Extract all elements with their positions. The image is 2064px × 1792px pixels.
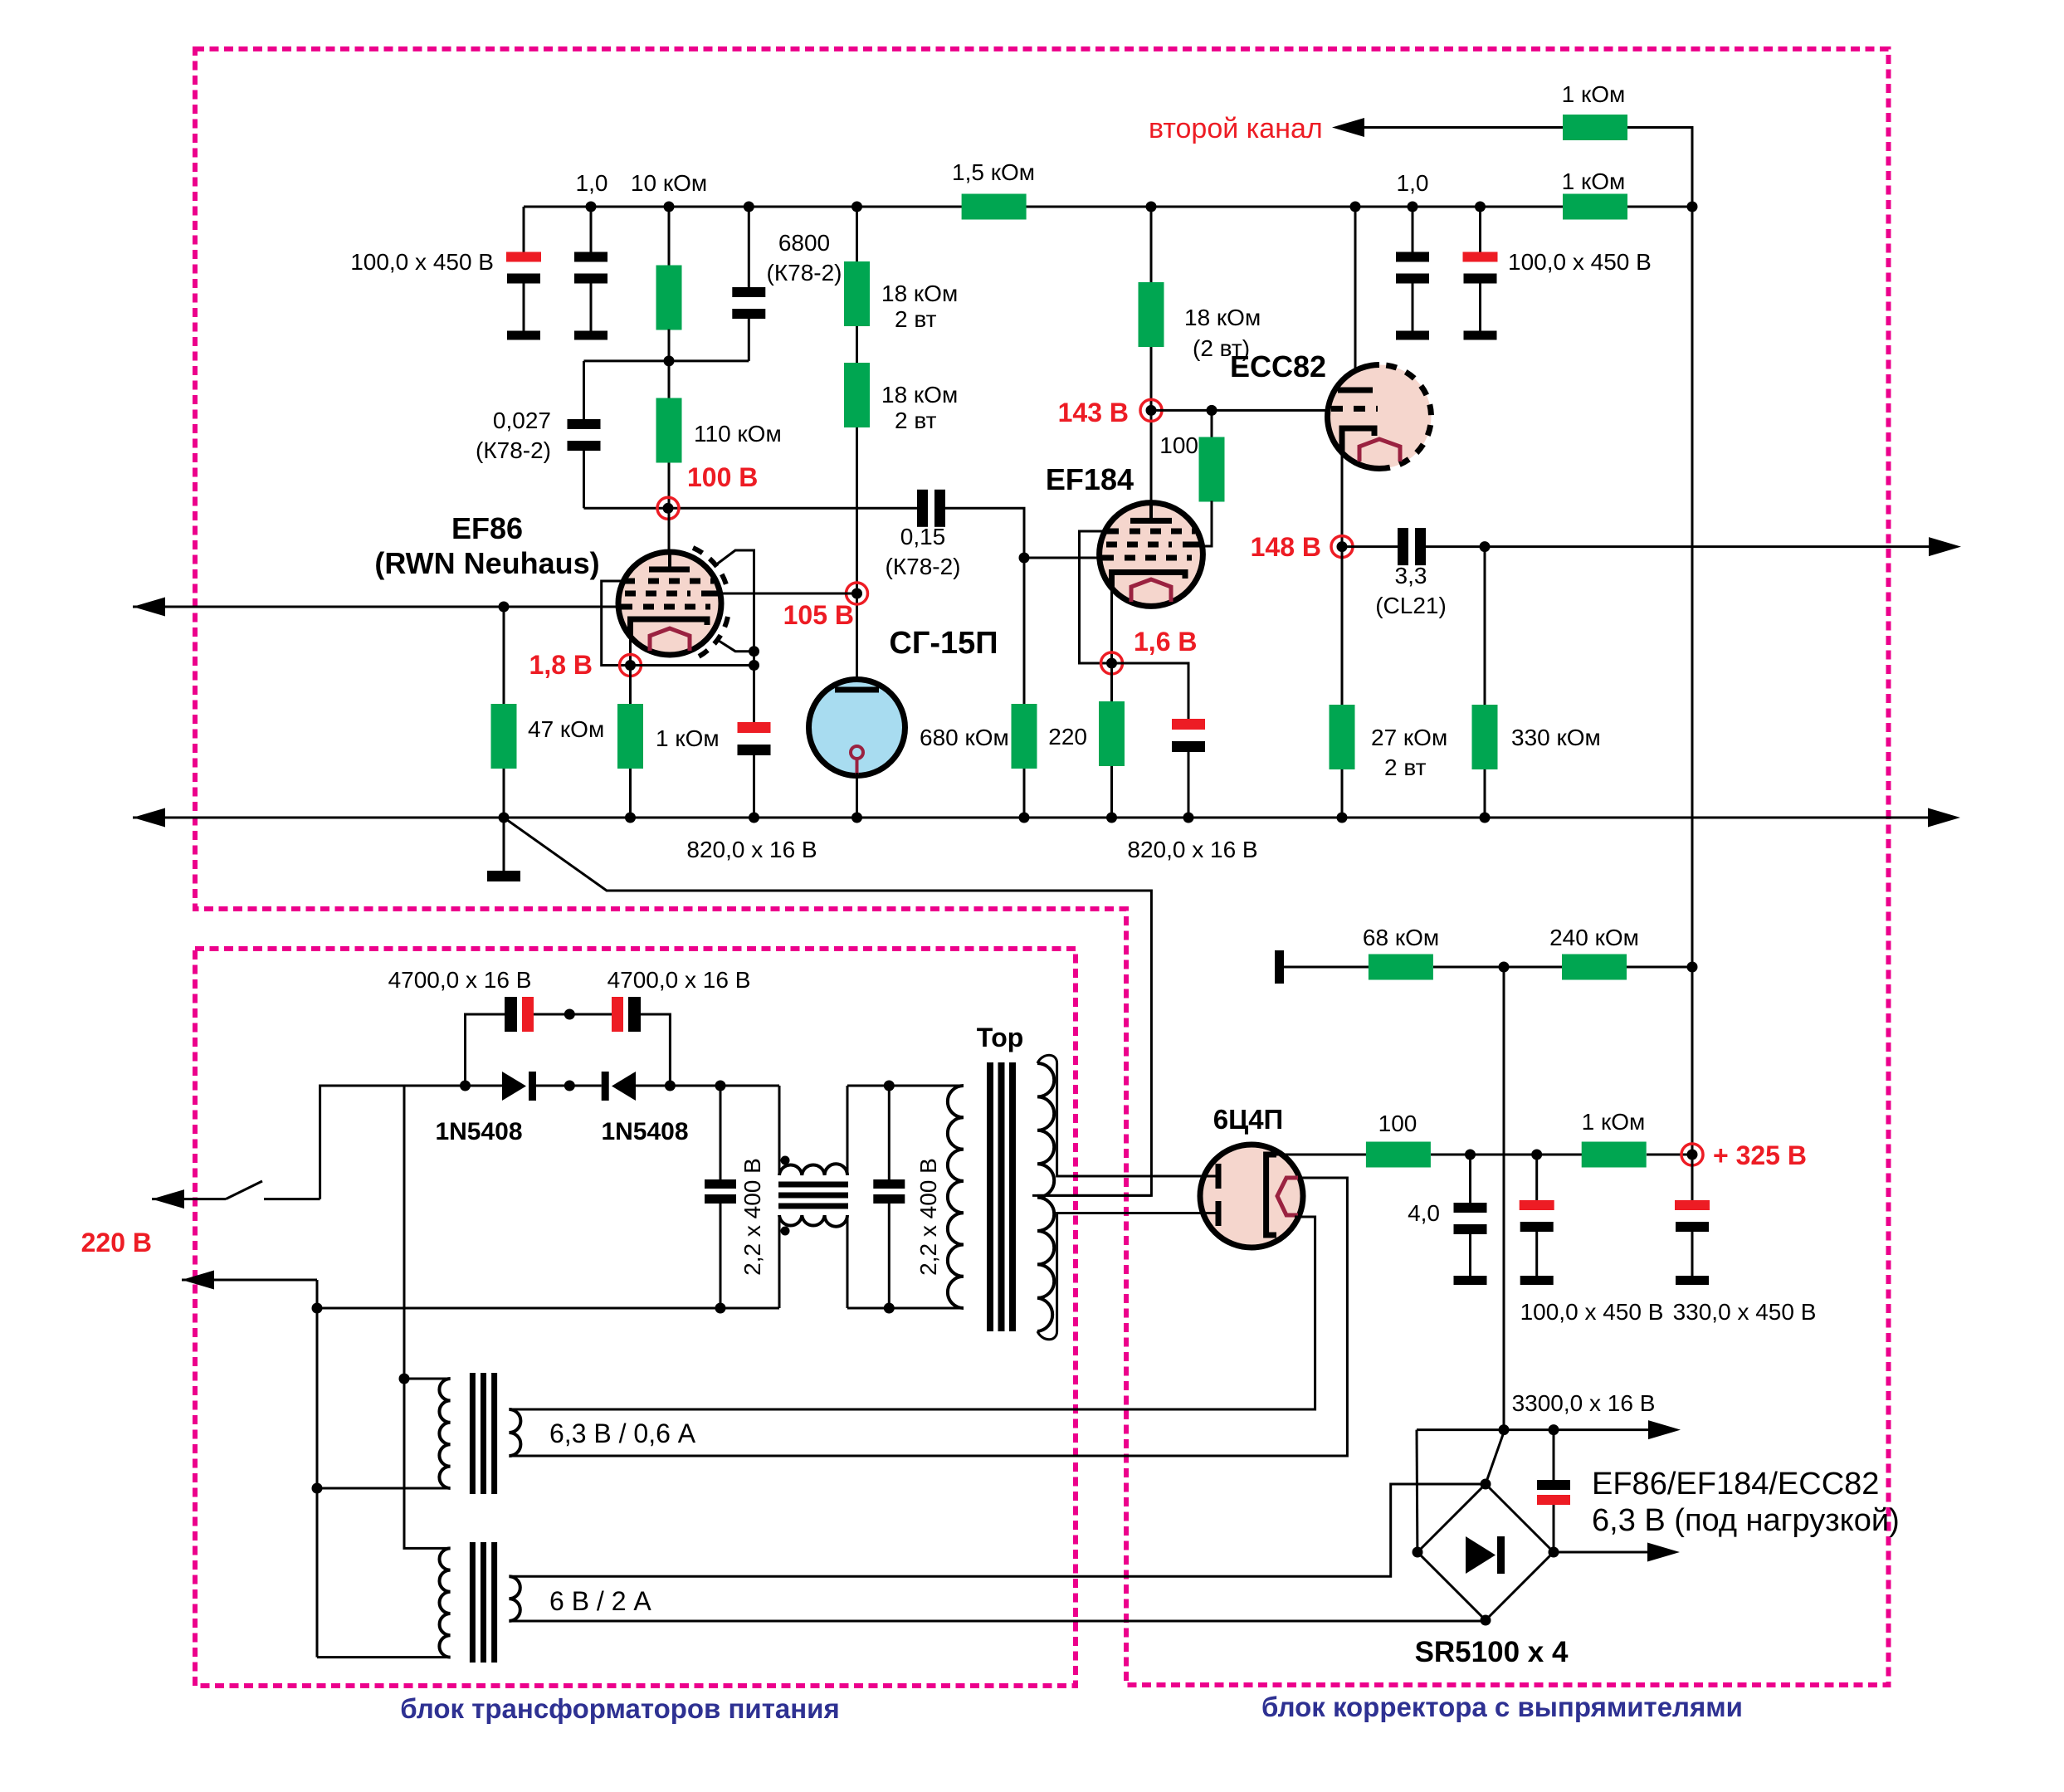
wire: bridge output to lower arrow [1554, 1551, 1648, 1554]
wire: EF86 anode pin [668, 508, 671, 554]
svg-text:220 В: 220 В [81, 1228, 152, 1257]
wire: output line with arrow [1426, 545, 1929, 548]
svg-text:1,0: 1,0 [576, 170, 608, 196]
wire: EF86 screen grid to 105V node [720, 593, 857, 595]
svg-text:330,0 x 450 В: 330,0 x 450 В [1673, 1299, 1817, 1325]
svg-text:18 кОм: 18 кОм [1184, 305, 1261, 330]
svg-text:0,15: 0,15 [900, 524, 946, 549]
wire: ECC82 anode feed [1350, 202, 1361, 212]
wire: switch riser to DC-trap [320, 1086, 502, 1199]
svg-text:2,2 x 400 В: 2,2 x 400 В [739, 1158, 765, 1276]
wire: 6C4P cathode output [1268, 1154, 1366, 1156]
EF86 cathode [631, 619, 708, 636]
svg-text:(CL21): (CL21) [1375, 593, 1447, 618]
wire: 6,3V/0,6A heater line lower [509, 1178, 1347, 1456]
svg-text:второй канал: второй канал [1149, 113, 1323, 144]
svg-text:100 В: 100 В [687, 462, 758, 492]
ECC82 heater [1359, 439, 1400, 461]
svg-text:100,0 x 450 В: 100,0 x 450 В [1520, 1299, 1664, 1325]
resistor 1,5 kOhm (rail decoupling) [962, 194, 1027, 220]
filament transformer 1 core [472, 1373, 494, 1494]
wire: 143V node to ECC82 grid [1151, 409, 1329, 412]
svg-text:EF86: EF86 [451, 511, 523, 545]
EF86 grid g3 row [624, 579, 714, 584]
resistor 27 kOhm 2W [1341, 547, 1344, 706]
EF86 grid3 tie to cathode [602, 581, 631, 666]
6C4P heater [1277, 1178, 1298, 1215]
filament transformer 1 secondary 6,3V [509, 1409, 520, 1456]
6C4P plate 1 [1203, 1175, 1217, 1178]
node: 1,6 V test point [1106, 658, 1117, 669]
svg-text:105 В: 105 В [783, 600, 854, 630]
wire: Tor secondary center tap [1037, 1194, 1151, 1197]
svg-text:18 кОм: 18 кОм [881, 281, 958, 306]
6C4P plate 2 [1203, 1212, 1217, 1214]
wire: divider tap down to heater reference [1503, 967, 1505, 1430]
wire: neutral drop [316, 1280, 319, 1658]
capacitor EF184 cathode bypass electrolytic [1112, 663, 1189, 720]
capacitor 100,0 x 450V electrolytic [1535, 1155, 1538, 1200]
svg-text:1 кОм: 1 кОм [1562, 81, 1626, 107]
wire: bridge minus riser [1416, 1430, 1419, 1552]
switch (mains) [226, 1181, 262, 1199]
diode 1N5408 (right, mirrored) [602, 1072, 609, 1101]
wire: EF184 grid entry [1024, 557, 1100, 559]
wire: screen supply column to SG-15P [856, 427, 858, 687]
svg-text:148 В: 148 В [1251, 532, 1321, 562]
resistor 1 kOhm (second channel) [1563, 115, 1627, 140]
svg-text:4700,0 x 16 В: 4700,0 x 16 В [388, 967, 532, 993]
arrow: to second channel [1332, 118, 1364, 137]
resistor 18 kOhm 2W (screen chain upper) [851, 202, 862, 212]
wire: PSU neutral rail [317, 1307, 779, 1310]
svg-text:ECC82: ECC82 [1230, 349, 1326, 383]
capacitor 6800 (K78-2) [744, 202, 754, 212]
svg-text:47 кОм: 47 кОм [528, 716, 604, 742]
EF184 anode [1149, 503, 1153, 520]
capacitor 100,0x450V (top right electrolytic) [1475, 202, 1486, 212]
EF86 cathode pin to 1,8V node [629, 635, 632, 666]
common-mode choke core [778, 1184, 848, 1206]
wire: DC-trap to choke [636, 1085, 779, 1087]
svg-text:100: 100 [1159, 432, 1198, 458]
ECC82 cathode [1342, 428, 1374, 452]
svg-text:2,2 x 400 В: 2,2 x 400 В [915, 1158, 941, 1276]
capacitor 330,0 x 450V electrolytic [1691, 1155, 1694, 1200]
capacitor 3,3 (CL21) output coupling [1342, 545, 1398, 548]
svg-text:4,0: 4,0 [1408, 1200, 1440, 1226]
ECC82 cathode pin to 148V node [1341, 451, 1344, 547]
resistor 680 kOhm (grid leak) [1012, 704, 1037, 769]
ECC82 anode [1338, 388, 1373, 393]
capacitor 1,0 (top right film) [1408, 202, 1418, 212]
resistor 100 (EF184 screen stopper) [1211, 410, 1213, 437]
wire: choke to Tor primary top [847, 1085, 964, 1087]
wire: diode junction [536, 1085, 602, 1087]
ECC82 grid row [1331, 406, 1378, 412]
wire: second channel feed [1362, 128, 1692, 208]
svg-text:3,3: 3,3 [1395, 563, 1427, 588]
svg-text:Тор: Тор [977, 1023, 1024, 1052]
transformer Tor secondary winding [1037, 1063, 1054, 1331]
tube ECC82 (half, dashed right) [1328, 365, 1380, 469]
node: 105 V test point [851, 588, 862, 599]
resistor 110 kOhm [668, 361, 671, 398]
common-mode choke upper winding [778, 1086, 781, 1175]
svg-text:68 кОм: 68 кОм [1363, 925, 1439, 950]
svg-text:330 кОм: 330 кОм [1511, 725, 1601, 750]
svg-text:(К78-2): (К78-2) [476, 437, 551, 463]
capacitor 0,027 (K78-2) [583, 361, 585, 420]
EF184 grid g3 row [1105, 529, 1195, 535]
frame: power transformer block [195, 949, 1076, 1686]
bridge diode symbol [1466, 1536, 1496, 1574]
transformer Tor primary winding [948, 1086, 964, 1308]
svg-text:1N5408: 1N5408 [435, 1118, 522, 1145]
svg-text:2 вт: 2 вт [895, 306, 937, 332]
wire: B+ vertical column [1691, 207, 1694, 1155]
svg-text:2 вт: 2 вт [1384, 754, 1427, 780]
svg-text:1 кОм: 1 кОм [1582, 1109, 1646, 1135]
svg-text:240 кОм: 240 кОм [1549, 925, 1639, 950]
EF86 grid g1 row [619, 604, 710, 610]
tube EF86 [618, 552, 721, 655]
node: +325 V test point [1687, 1150, 1698, 1160]
svg-text:SR5100 x 4: SR5100 x 4 [1415, 1636, 1569, 1668]
capacitor 3300,0 x 16V electrolytic [1553, 1430, 1555, 1480]
wire: RIAA junction row [584, 359, 749, 362]
wire: input rail (left arrow) [133, 606, 619, 608]
svg-text:6,3 В / 0,6 А: 6,3 В / 0,6 А [549, 1418, 696, 1448]
resistor 1 kOhm (rail) [1563, 194, 1627, 220]
svg-text:680 кОм: 680 кОм [920, 725, 1009, 750]
svg-text:EF184: EF184 [1046, 462, 1134, 496]
EF184 cathode pin [1110, 587, 1113, 663]
wire: SG-15P to ground rail [856, 773, 858, 818]
transformer Tor core [990, 1062, 1012, 1331]
bridge rectifier SR5100 x 4 [1417, 1484, 1554, 1620]
node: 143 V test point [1146, 405, 1157, 416]
resistor 47 kOhm (input load) [503, 607, 505, 705]
svg-text:СГ-15П: СГ-15П [889, 626, 998, 661]
filament transformer 2 primary [404, 1379, 451, 1548]
svg-text:220: 220 [1048, 724, 1087, 750]
svg-text:+ 325 В: + 325 В [1713, 1140, 1807, 1170]
capacitor 2,2 x 400V (right) [888, 1086, 890, 1179]
svg-text:(К78-2): (К78-2) [886, 554, 961, 579]
capacitor 4,0 film [1469, 1155, 1471, 1203]
svg-text:6Ц4П: 6Ц4П [1213, 1104, 1284, 1135]
svg-text:1,0: 1,0 [1397, 170, 1429, 196]
EF184 grid g1 row [1100, 555, 1192, 561]
svg-text:1 кОм: 1 кОм [656, 725, 720, 751]
svg-text:0,027: 0,027 [493, 408, 551, 433]
wire: coupling cap to EF184 grid [945, 508, 1024, 704]
wire: 68k/240k divider line [1275, 950, 1284, 984]
tube EF184 [1100, 503, 1203, 607]
filament transformer 2 core [472, 1542, 494, 1663]
node: 148 V test point [1337, 541, 1348, 552]
filament transformer 2 secondary 6V [509, 1576, 520, 1621]
capacitor 4700,0 x16V (right) [569, 1013, 612, 1016]
wire: mains live with arrow [152, 1198, 226, 1200]
capacitor 4700,0 x16V (left) [460, 1081, 471, 1091]
resistor 18 kOhm 2W (screen chain lower) [856, 326, 858, 364]
resistor 100 (rectifier output) [1366, 1142, 1431, 1168]
svg-text:100,0 x 450 В: 100,0 x 450 В [1508, 249, 1652, 275]
svg-text:27 кОм: 27 кОм [1371, 725, 1447, 750]
wire: common ground rail [133, 817, 1929, 819]
EF86 shield dashed arcs [693, 548, 728, 591]
wire: anode node 100V [584, 507, 918, 510]
svg-text:блок корректора с выпрямителям: блок корректора с выпрямителями [1261, 1692, 1743, 1722]
svg-text:(К78-2): (К78-2) [767, 260, 842, 286]
svg-text:EF86/EF184/ECC82: EF86/EF184/ECC82 [1592, 1467, 1879, 1501]
wire: Tor secondary top to 6C4P plate 1 [1037, 1055, 1203, 1176]
ground rail junction dots [499, 813, 510, 823]
wire: 6V/2A line lower to bridge [509, 1620, 1486, 1623]
svg-text:820,0 x 16 В: 820,0 x 16 В [686, 837, 817, 862]
tube SG-15P [809, 680, 905, 776]
svg-text:1N5408: 1N5408 [601, 1118, 688, 1145]
node: 100 V test point [657, 497, 679, 519]
node: 1,8 V test point [625, 660, 636, 671]
resistor 18 kOhm (2W) EF184 anode [1146, 202, 1157, 212]
svg-text:10 кОм: 10 кОм [631, 170, 707, 196]
wire: 6V/2A line upper to bridge [509, 1484, 1486, 1576]
svg-text:1,5 кОм: 1,5 кОм [952, 159, 1035, 185]
frame: corrector block (L-shape) [195, 49, 1889, 1685]
svg-text:1,6 В: 1,6 В [1134, 627, 1197, 657]
ground symbol [503, 818, 505, 871]
EF86 grid g2 row [625, 591, 719, 597]
svg-text:3300,0 x 16 В: 3300,0 x 16 В [1512, 1390, 1656, 1416]
wire: cathode bypass branch [631, 664, 754, 667]
svg-text:1 кОм: 1 кОм [1562, 168, 1626, 194]
EF184 grid g2 row [1106, 542, 1202, 548]
node: rail-to-channel junction [1687, 202, 1698, 212]
wire: 6,3V/0,6A heater line upper [509, 1217, 1315, 1409]
capacitor EF86 cathode bypass electrolytic [753, 666, 755, 724]
EF184 heater [1131, 579, 1171, 602]
capacitor 100,0x450V (top left electrolytic) [523, 207, 525, 252]
wire: heater pin lower [1295, 1216, 1315, 1218]
EF86 heater [650, 628, 690, 651]
svg-text:блок трансформаторов питания: блок трансформаторов питания [400, 1693, 839, 1724]
resistor 1 kOhm (EF86 cathode) [629, 666, 632, 706]
svg-text:(RWN Neuhaus): (RWN Neuhaus) [374, 546, 599, 580]
tube 6C4P [1200, 1145, 1303, 1248]
wire: mains neutral with arrow [182, 1279, 317, 1282]
EF184 cathode [1112, 573, 1186, 588]
svg-text:4700,0 x 16 В: 4700,0 x 16 В [607, 967, 751, 993]
EF86 shield connections [715, 550, 754, 666]
6C4P cathode bracket [1266, 1155, 1276, 1235]
filament transformer 1 primary [399, 1374, 410, 1384]
svg-text:18 кОм: 18 кОм [881, 382, 958, 408]
svg-text:2 вт: 2 вт [895, 408, 937, 433]
wire: Tor secondary bottom to 6C4P plate 2 [1037, 1213, 1203, 1340]
svg-text:143 В: 143 В [1058, 398, 1129, 427]
svg-text:110 кОм: 110 кОм [694, 421, 782, 447]
svg-text:1,8 В: 1,8 В [529, 650, 593, 680]
svg-text:6 В / 2 А: 6 В / 2 А [549, 1586, 651, 1616]
resistor 68 kOhm [1369, 955, 1433, 980]
resistor 240 kOhm [1562, 955, 1627, 980]
resistor 220 (EF184 cathode) [1110, 663, 1113, 702]
wire: B+ top rail [524, 206, 1692, 208]
capacitor 1,0 (top left film) [586, 202, 597, 212]
resistor 1 kOhm (B+ filter) [1582, 1142, 1647, 1168]
EF184 grid3 tie [1080, 531, 1113, 663]
svg-text:6800: 6800 [778, 230, 830, 256]
capacitor 2,2 x 400V (left) [720, 1086, 722, 1179]
common-mode choke lower winding [778, 1215, 781, 1308]
wire: B- return to PSU [504, 818, 1151, 1195]
resistor 330 kOhm [1484, 547, 1486, 706]
resistor 10 kOhm [664, 202, 675, 212]
svg-text:820,0 x 16 В: 820,0 x 16 В [1127, 837, 1257, 862]
svg-text:100,0 x 450 В: 100,0 x 450 В [350, 249, 494, 275]
svg-text:100: 100 [1378, 1111, 1417, 1136]
capacitor 0,15 (K78-2) coupling [917, 490, 945, 527]
diode 1N5408 (left) [502, 1072, 526, 1101]
svg-text:6,3 В (под нагрузкой): 6,3 В (под нагрузкой) [1592, 1503, 1900, 1538]
EF86 anode [668, 552, 671, 569]
wire: heater DC line (3300uF) [1417, 1428, 1650, 1431]
